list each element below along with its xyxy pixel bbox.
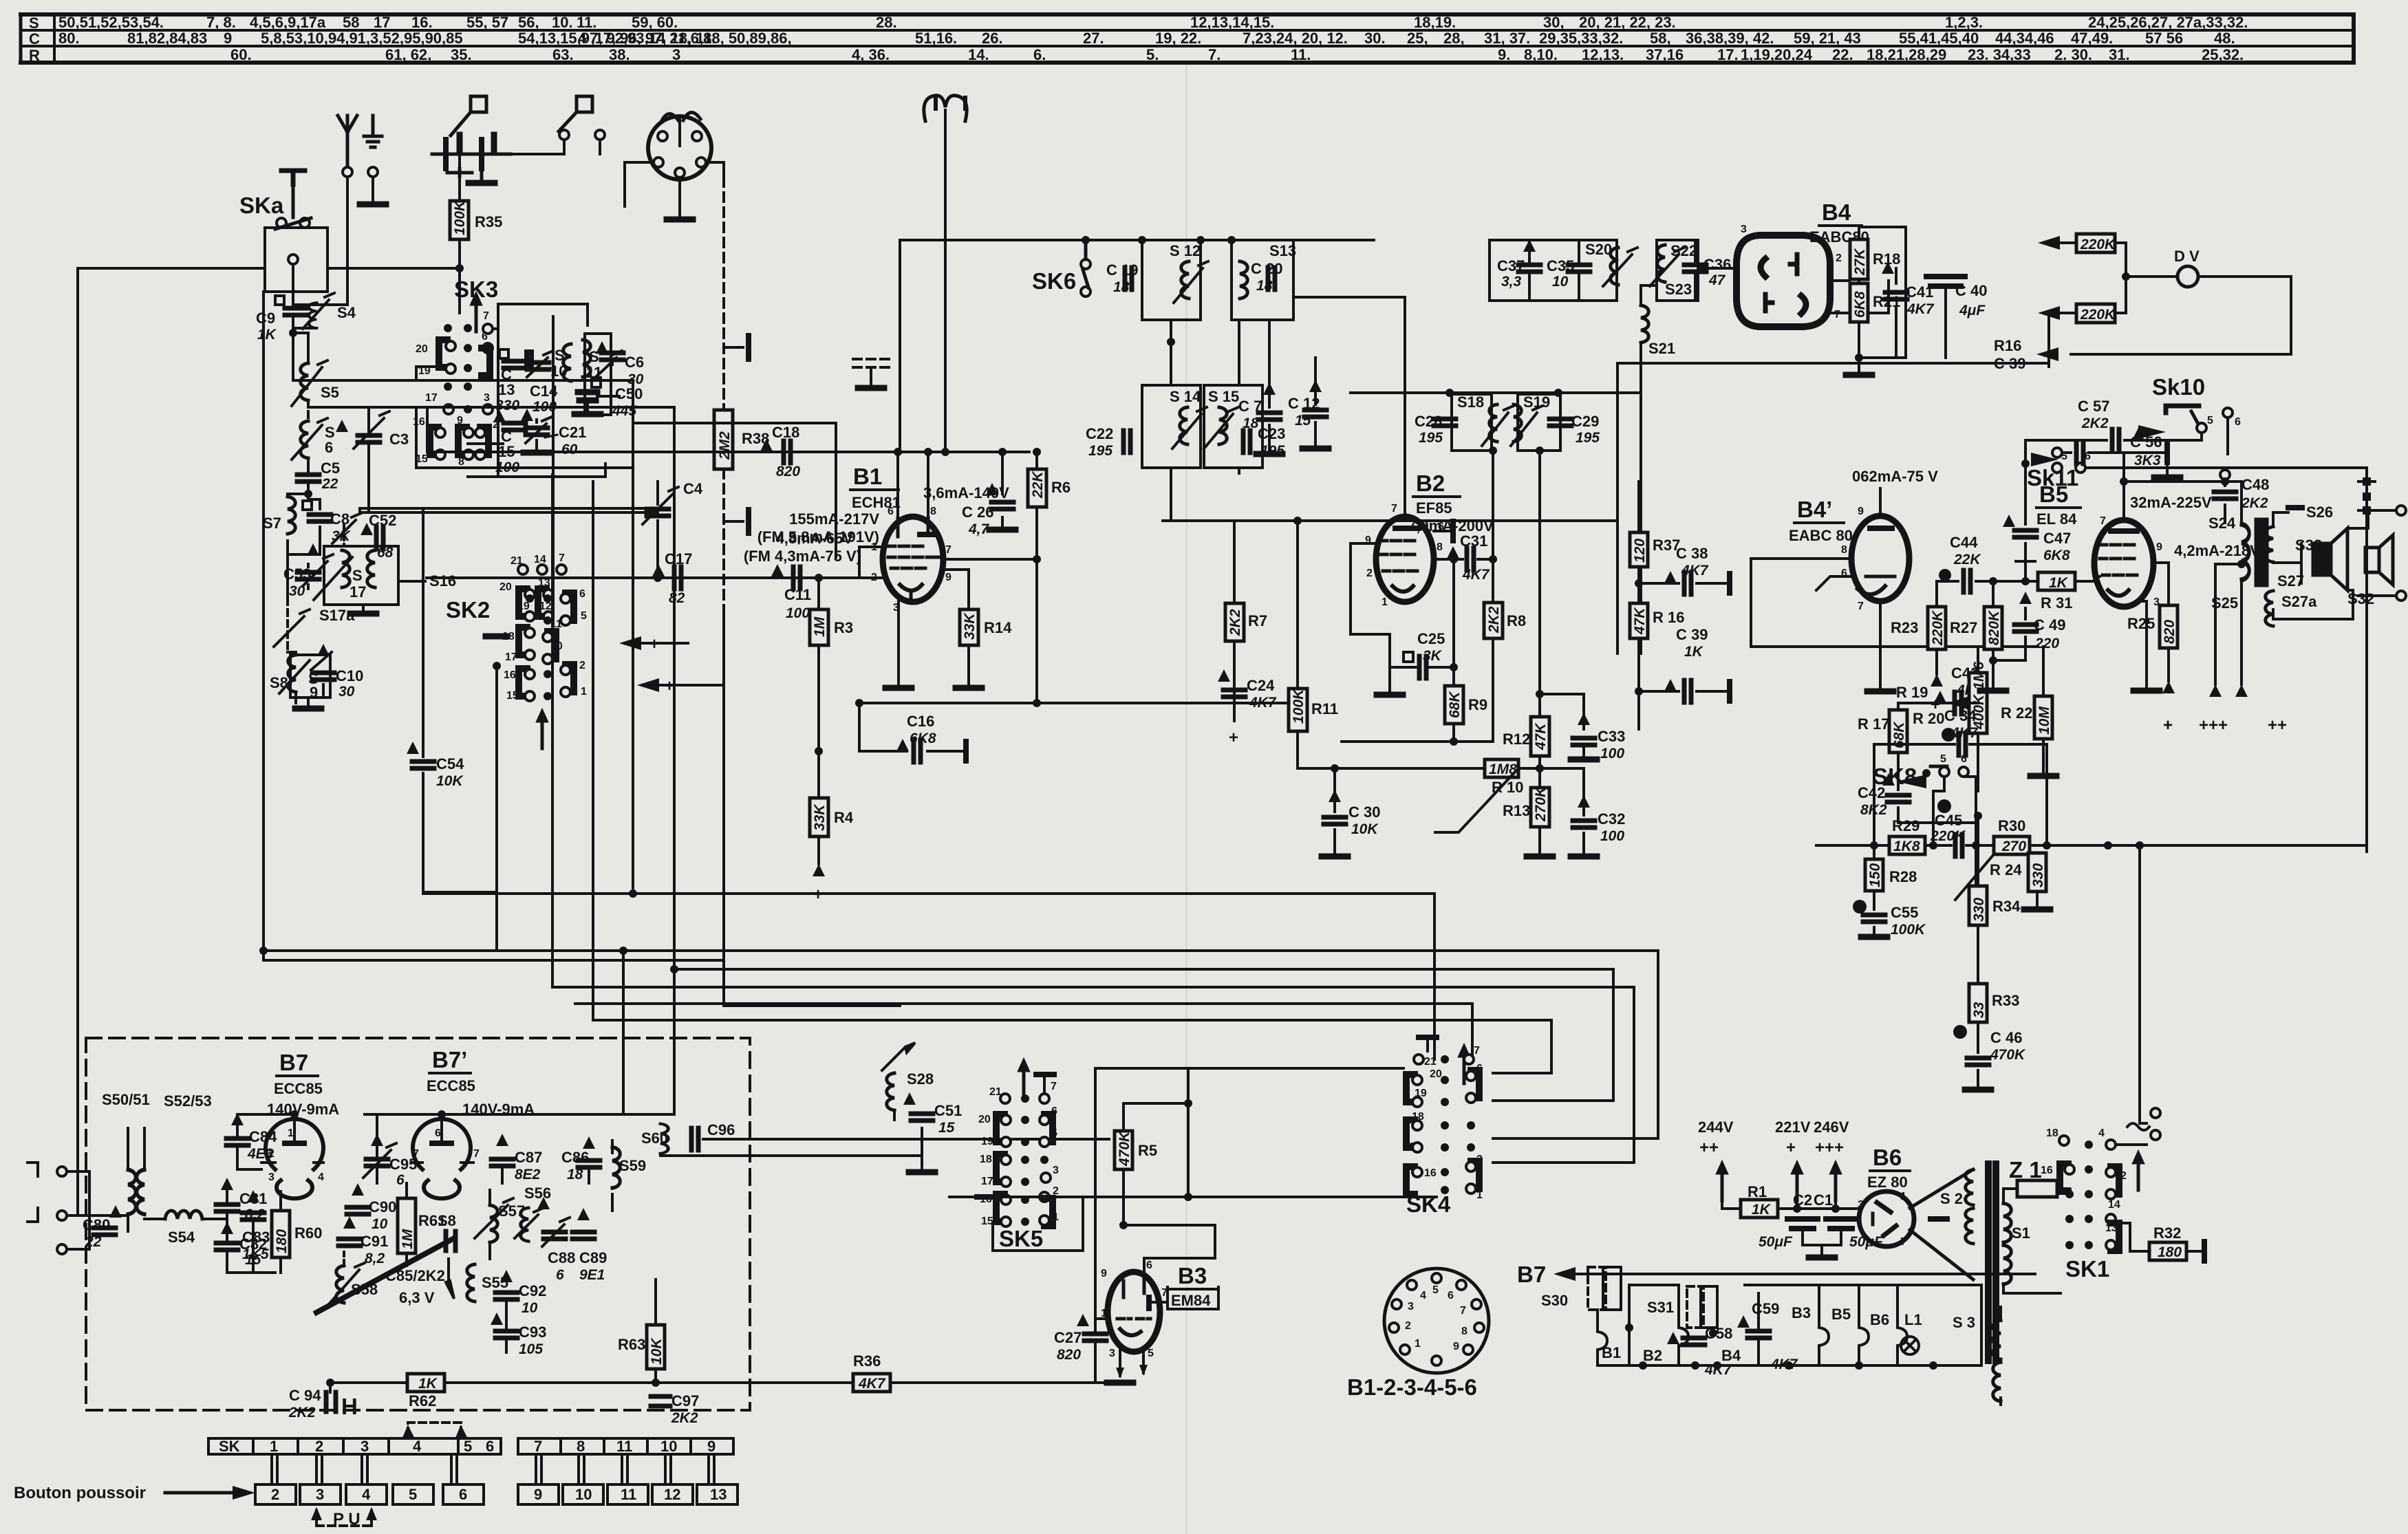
svg-text:3: 3 <box>672 46 680 63</box>
svg-text:19: 19 <box>981 1136 993 1147</box>
svg-text:15: 15 <box>938 1120 955 1136</box>
svg-text:155mA-217V: 155mA-217V <box>789 510 879 528</box>
svg-text:C24: C24 <box>1247 677 1275 694</box>
svg-text:2: 2 <box>2092 573 2098 585</box>
svg-text:4K7: 4K7 <box>1906 301 1935 317</box>
svg-text:S50/51: S50/51 <box>102 1091 150 1108</box>
svg-text:C28: C28 <box>1415 413 1442 430</box>
svg-text:57 56: 57 56 <box>2145 30 2183 47</box>
svg-text:180: 180 <box>274 1229 290 1253</box>
svg-text:C 39: C 39 <box>1676 626 1708 643</box>
svg-text:C87: C87 <box>515 1149 542 1166</box>
svg-text:1: 1 <box>1053 1211 1059 1223</box>
tube B7 ECC85 <box>266 1119 323 1199</box>
svg-text:S 3: S 3 <box>1953 1314 1975 1331</box>
svg-text:B6: B6 <box>1873 1145 1902 1170</box>
svg-text:5: 5 <box>409 1486 417 1503</box>
R10 1M8 bus <box>1298 731 1541 768</box>
svg-text:22: 22 <box>85 1234 102 1250</box>
svg-text:C: C <box>29 30 40 47</box>
svg-text:150: 150 <box>1867 863 1883 887</box>
svg-text:C35: C35 <box>1547 257 1574 274</box>
capacitor C27 <box>1084 1334 1106 1341</box>
svg-text:C 30: C 30 <box>1348 803 1380 821</box>
svg-text:9: 9 <box>707 1438 716 1455</box>
svg-text:1: 1 <box>581 686 587 698</box>
svg-text:C86: C86 <box>561 1149 589 1166</box>
S14 box <box>1142 385 1201 468</box>
svg-text:3K3: 3K3 <box>2134 453 2161 468</box>
svg-text:C29: C29 <box>1571 413 1599 430</box>
svg-text:7: 7 <box>1051 1081 1057 1092</box>
svg-text:9: 9 <box>457 415 463 426</box>
svg-text:C84: C84 <box>249 1128 277 1145</box>
svg-text:1K5: 1K5 <box>242 1246 269 1262</box>
S31 dashed <box>1687 1286 1717 1328</box>
svg-text:2M2: 2M2 <box>717 431 733 460</box>
svg-text:55,41,45,40: 55,41,45,40 <box>1899 30 1979 47</box>
svg-text:820K: 820K <box>1986 609 2002 645</box>
svg-text:S22: S22 <box>1670 242 1697 259</box>
svg-text:S 2: S 2 <box>1940 1190 1963 1207</box>
svg-text:B7: B7 <box>279 1050 308 1075</box>
svg-text:4: 4 <box>362 1486 371 1503</box>
svg-text:C17: C17 <box>665 550 692 568</box>
svg-text:30: 30 <box>289 583 305 599</box>
svg-text:8E2: 8E2 <box>515 1167 541 1182</box>
svg-text:++: ++ <box>1699 1138 1719 1157</box>
svg-text:100K: 100K <box>1891 922 1926 938</box>
svg-text:10: 10 <box>522 1300 538 1316</box>
svg-text:33: 33 <box>1971 1002 1987 1018</box>
svg-text:16.: 16. <box>411 14 433 31</box>
resistor R6 <box>1035 452 1038 703</box>
svg-text:55, 57: 55, 57 <box>466 14 508 31</box>
svg-text:17: 17 <box>425 392 438 404</box>
resistor R4 <box>817 751 820 798</box>
coil S54 <box>165 1211 202 1219</box>
svg-text:SK6: SK6 <box>1032 268 1076 294</box>
dashes above 4 <box>405 1423 465 1436</box>
antenna <box>338 116 357 167</box>
svg-text:59, 60.: 59, 60. <box>632 14 678 31</box>
svg-text:25,: 25, <box>1407 30 1428 47</box>
svg-text:33K: 33K <box>962 612 978 640</box>
svg-text:8,2: 8,2 <box>365 1251 385 1266</box>
svg-text:EL 84: EL 84 <box>2036 510 2077 528</box>
svg-text:17: 17 <box>374 14 390 31</box>
diagonal from 1M8 <box>1435 768 1518 832</box>
svg-text:1K: 1K <box>1752 1202 1772 1218</box>
svg-text:6: 6 <box>579 588 585 600</box>
svg-text:7: 7 <box>1900 1236 1906 1248</box>
svg-text:C80: C80 <box>83 1216 110 1233</box>
capacitor C45 <box>1937 799 1951 813</box>
svg-text:S1: S1 <box>2012 1224 2030 1242</box>
svg-text:16: 16 <box>504 669 516 681</box>
svg-text:18: 18 <box>2046 1127 2058 1139</box>
resistors R18 R21 <box>1850 239 1868 279</box>
svg-text:7: 7 <box>1474 1045 1480 1057</box>
svg-text:100: 100 <box>1600 828 1624 844</box>
svg-text:S24: S24 <box>2208 515 2236 532</box>
svg-text:18: 18 <box>502 631 515 642</box>
svg-text:6: 6 <box>1961 753 1967 765</box>
svg-text:C18: C18 <box>772 424 799 441</box>
svg-text:13: 13 <box>498 381 515 398</box>
svg-text:ECC85: ECC85 <box>427 1077 475 1094</box>
svg-text:EZ 80: EZ 80 <box>1867 1174 1908 1191</box>
svg-text:100K: 100K <box>452 199 468 235</box>
svg-text:P U: P U <box>333 1510 361 1528</box>
svg-text:105: 105 <box>519 1341 543 1357</box>
svg-text:SK1: SK1 <box>2065 1256 2109 1282</box>
resistor R36 <box>853 1374 890 1392</box>
R36 line continues to B3 <box>890 1343 1095 1383</box>
svg-text:S16: S16 <box>429 572 456 590</box>
svg-text:+++: +++ <box>2199 716 2228 735</box>
svg-text:10K: 10K <box>436 773 464 789</box>
svg-text:B2: B2 <box>1643 1347 1662 1364</box>
svg-text:D V: D V <box>2174 248 2200 265</box>
svg-text:S 15: S 15 <box>1208 388 1239 405</box>
resistor R11 <box>1289 689 1307 731</box>
svg-text:4E3: 4E3 <box>247 1146 274 1162</box>
svg-text:3: 3 <box>268 1171 275 1183</box>
coil S7 / capacitor C8 <box>288 494 320 554</box>
svg-text:27K: 27K <box>1852 248 1868 276</box>
svg-text:R13: R13 <box>1503 802 1530 819</box>
svg-text:2: 2 <box>315 1438 323 1455</box>
svg-text:++: ++ <box>2268 716 2287 735</box>
svg-text:16: 16 <box>1424 1167 1437 1179</box>
svg-text:7: 7 <box>1858 601 1864 612</box>
svg-text:1M: 1M <box>400 1229 416 1249</box>
svg-text:R34: R34 <box>1992 898 2021 915</box>
svg-text:10.: 10. <box>552 14 573 31</box>
svg-text:S20: S20 <box>1585 241 1612 258</box>
svg-text:22K: 22K <box>1030 471 1046 499</box>
svg-text:20: 20 <box>416 343 428 355</box>
left frame <box>78 268 460 1216</box>
svg-text:R16: R16 <box>1994 337 2021 354</box>
C44 + R31 line <box>1937 580 2094 583</box>
svg-text:C 39: C 39 <box>1994 355 2025 372</box>
svg-text:12,13,14,15.: 12,13,14,15. <box>1190 14 1274 31</box>
svg-text:6: 6 <box>459 1486 467 1503</box>
svg-text:ECC85: ECC85 <box>274 1080 323 1097</box>
svg-text:5: 5 <box>1476 1086 1483 1098</box>
svg-text:5.: 5. <box>1146 46 1159 63</box>
svg-text:9.: 9. <box>1498 46 1510 63</box>
caps right edge on x=3440 <box>2358 482 2375 510</box>
svg-text:C1: C1 <box>1814 1191 1833 1209</box>
svg-text:C96: C96 <box>707 1121 735 1138</box>
bus y=1229 with R29 C45 R30 <box>1816 844 2367 847</box>
svg-text:7, 8.: 7, 8. <box>206 14 236 31</box>
svg-text:17: 17 <box>1404 1141 1416 1153</box>
svg-text:11: 11 <box>621 1486 636 1503</box>
R19/R20/R17/R22/C42/C43/R24 cluster <box>1751 638 1969 647</box>
svg-text:S8: S8 <box>270 674 288 691</box>
svg-text:30: 30 <box>338 684 355 700</box>
svg-text:1: 1 <box>1415 1338 1421 1350</box>
svg-text:1: 1 <box>1476 1189 1483 1201</box>
svg-text:B2: B2 <box>1416 471 1445 496</box>
svg-text:C37: C37 <box>1497 257 1525 274</box>
svg-text:R 16: R 16 <box>1653 609 1684 626</box>
svg-text:4K7: 4K7 <box>1770 1357 1798 1372</box>
svg-text:31, 37.: 31, 37. <box>1484 30 1530 47</box>
mains terminals <box>2116 852 2151 1145</box>
svg-text:C54: C54 <box>436 755 464 773</box>
resistor R38 <box>724 177 749 614</box>
svg-text:47,49.: 47,49. <box>2071 30 2113 47</box>
capacitor C5 <box>307 458 310 494</box>
svg-text:2K2: 2K2 <box>288 1405 316 1420</box>
svg-text:B4’: B4’ <box>1797 497 1832 522</box>
svg-text:47K: 47K <box>1632 607 1648 635</box>
svg-text:C 56: C 56 <box>2130 433 2162 451</box>
svg-text:10: 10 <box>575 1486 592 1503</box>
B4 wires <box>1658 267 1889 313</box>
svg-text:R 22: R 22 <box>2001 704 2032 722</box>
svg-text:6K8: 6K8 <box>1852 291 1868 318</box>
svg-text:17: 17 <box>350 583 366 601</box>
svg-text:38.: 38. <box>609 46 630 63</box>
svg-text:51,16.: 51,16. <box>915 30 957 47</box>
svg-text:2K2: 2K2 <box>2081 415 2109 431</box>
svg-text:120: 120 <box>1632 539 1648 563</box>
svg-text:S32: S32 <box>2347 590 2374 607</box>
S30 dashed <box>1588 1267 1621 1310</box>
svg-text:1: 1 <box>1382 596 1388 608</box>
svg-text:C 38: C 38 <box>1676 545 1708 562</box>
svg-text:R5: R5 <box>1138 1142 1157 1159</box>
PU <box>313 1511 375 1526</box>
svg-text:100: 100 <box>1600 746 1624 761</box>
svg-text:C23: C23 <box>1258 425 1285 442</box>
svg-text:9: 9 <box>534 1486 542 1503</box>
svg-text:R27: R27 <box>1950 619 1977 636</box>
svg-text:18: 18 <box>980 1154 992 1165</box>
svg-text:C33: C33 <box>1598 728 1625 745</box>
svg-text:6.: 6. <box>1033 46 1046 63</box>
svg-text:47: 47 <box>1708 272 1726 288</box>
resistor R9 <box>1452 559 1455 742</box>
svg-text:20: 20 <box>978 1114 991 1125</box>
Sk11 <box>2031 453 2058 466</box>
R25 <box>2160 605 2178 648</box>
svg-text:8: 8 <box>1841 544 1847 556</box>
svg-text:EM84: EM84 <box>1171 1292 1211 1309</box>
svg-text:5,8,53,10,94,91,3,52,95,90,85: 5,8,53,10,94,91,3,52,95,90,85 <box>261 30 463 47</box>
capacitors C90 C91 <box>347 1207 369 1214</box>
secondary <box>2266 527 2273 562</box>
coil S55 <box>316 1238 454 1312</box>
svg-text:1: 1 <box>288 1127 294 1139</box>
tube B7' ECC85 <box>413 1119 471 1199</box>
svg-text:21: 21 <box>1424 1056 1437 1068</box>
capacitor C54 <box>423 510 497 951</box>
svg-text:R3: R3 <box>834 619 853 636</box>
capacitors C87 C86 / coil S59 <box>491 1159 513 1166</box>
svg-text:30.: 30. <box>1364 30 1386 47</box>
resistor R7 / capacitor C24 <box>1233 521 1236 715</box>
svg-text:R32: R32 <box>2153 1224 2181 1242</box>
svg-text:C59: C59 <box>1752 1300 1779 1317</box>
svg-text:C50: C50 <box>615 385 643 402</box>
svg-text:18,21,28,29: 18,21,28,29 <box>1867 46 1946 63</box>
svg-text:R35: R35 <box>475 213 502 230</box>
svg-text:220K: 220K <box>2080 307 2116 323</box>
plus arrow (C16 row) <box>637 678 659 692</box>
svg-text:SK5: SK5 <box>999 1226 1043 1251</box>
svg-text:16: 16 <box>413 416 425 428</box>
svg-text:R29: R29 <box>1892 817 1920 834</box>
svg-text:S 14: S 14 <box>1170 388 1201 405</box>
svg-text:35.: 35. <box>451 46 472 63</box>
svg-text:R14: R14 <box>984 619 1012 636</box>
svg-text:R 17: R 17 <box>1858 715 1889 733</box>
svg-text:17.: 17. <box>1717 46 1739 63</box>
svg-text:Bouton poussoir: Bouton poussoir <box>14 1484 146 1502</box>
svg-text:C36: C36 <box>1703 256 1731 273</box>
S11 box <box>585 334 611 415</box>
svg-text:9: 9 <box>224 30 232 47</box>
resistor R61 <box>398 1198 416 1253</box>
svg-text:56,: 56, <box>518 14 539 31</box>
svg-text:6,3 V: 6,3 V <box>399 1289 435 1306</box>
svg-text:10M: 10M <box>2036 706 2052 735</box>
svg-text:4: 4 <box>2098 1127 2105 1139</box>
svg-text:29,35,33,32.: 29,35,33,32. <box>1539 30 1623 47</box>
svg-text:18: 18 <box>1113 279 1130 295</box>
svg-text:7: 7 <box>1391 503 1397 515</box>
svg-text:C 19: C 19 <box>1106 261 1138 279</box>
svg-text:S27: S27 <box>2277 572 2304 590</box>
svg-text:13: 13 <box>710 1486 727 1503</box>
svg-text:22.: 22. <box>1832 46 1853 63</box>
svg-text:6: 6 <box>888 506 894 517</box>
svg-text:R25: R25 <box>2127 615 2155 632</box>
capacitor C25 <box>1404 652 1413 662</box>
tube B1 ECH81 <box>883 517 943 602</box>
svg-text:5: 5 <box>1432 1284 1439 1296</box>
svg-text:100K: 100K <box>1291 688 1307 724</box>
svg-text:C10: C10 <box>336 667 363 684</box>
push contact assembly <box>432 135 510 180</box>
svg-text:6K8: 6K8 <box>2043 548 2070 563</box>
svg-text:330: 330 <box>2030 863 2046 887</box>
svg-text:246V: 246V <box>1814 1119 1849 1136</box>
svg-text:59, 21, 43: 59, 21, 43 <box>1794 30 1861 47</box>
wires upper-left middle <box>293 268 836 1020</box>
svg-text:33K: 33K <box>812 803 828 831</box>
svg-text:50,51,52,53,54.: 50,51,52,53,54. <box>58 14 164 31</box>
svg-text:10: 10 <box>660 1438 677 1455</box>
svg-text:SK4: SK4 <box>1406 1191 1451 1217</box>
svg-text:4K7: 4K7 <box>1249 695 1277 711</box>
svg-text:2: 2 <box>1476 1154 1483 1165</box>
bus y=840 <box>427 576 883 579</box>
svg-text:17: 17 <box>981 1176 993 1187</box>
svg-text:7: 7 <box>559 552 565 564</box>
svg-text:+++: +++ <box>1815 1138 1844 1157</box>
svg-text:4,8mA-65V: 4,8mA-65V <box>775 530 853 547</box>
svg-text:50μF: 50μF <box>1759 1234 1793 1250</box>
wire antenna down to S4 <box>316 177 347 305</box>
svg-text:58,: 58, <box>1650 30 1671 47</box>
svg-text:S8: S8 <box>438 1212 456 1229</box>
svg-text:C44: C44 <box>1950 534 1978 551</box>
svg-text:C 26: C 26 <box>962 504 993 521</box>
svg-text:470K: 470K <box>1990 1047 2026 1063</box>
svg-text:5: 5 <box>1940 753 1946 765</box>
svg-text:C32: C32 <box>1598 810 1625 828</box>
svg-text:S30: S30 <box>1541 1292 1568 1309</box>
left bracket pins 9/2 <box>1351 543 1390 634</box>
capacitor C84 <box>226 1138 248 1145</box>
svg-text:C 94: C 94 <box>289 1387 321 1404</box>
svg-text:6: 6 <box>1448 1290 1454 1301</box>
coil S58 <box>336 1266 344 1303</box>
svg-text:R36: R36 <box>853 1352 881 1370</box>
resistors R34 R33 / capacitor C46 <box>1976 886 1978 1087</box>
svg-text:1K8: 1K8 <box>1893 839 1920 854</box>
svg-text:C 49: C 49 <box>2034 616 2065 634</box>
svg-text:8,10.: 8,10. <box>1524 46 1558 63</box>
svg-text:S60: S60 <box>641 1130 668 1147</box>
mains plug symbol <box>924 96 967 452</box>
svg-text:SKa: SKa <box>239 193 284 218</box>
svg-text:58: 58 <box>343 14 359 31</box>
capacitor C16 <box>859 703 1298 751</box>
svg-text:15: 15 <box>1295 413 1311 429</box>
svg-text:80.: 80. <box>58 30 80 47</box>
resistor R3 <box>817 578 820 751</box>
svg-text:22: 22 <box>321 476 338 492</box>
capacitor C95 <box>366 1159 388 1166</box>
svg-text:220K: 220K <box>2080 237 2116 252</box>
svg-text:C90: C90 <box>369 1198 396 1216</box>
svg-text:7: 7 <box>534 1438 542 1455</box>
svg-text:18,19.: 18,19. <box>1414 14 1456 31</box>
svg-text:2: 2 <box>271 1486 279 1503</box>
svg-text:2: 2 <box>1405 1320 1411 1332</box>
svg-text:6: 6 <box>1146 1260 1152 1271</box>
svg-text:16: 16 <box>980 1193 992 1205</box>
svg-text:C 40: C 40 <box>1955 282 1987 299</box>
svg-text:S54: S54 <box>168 1229 195 1246</box>
svg-text:S5: S5 <box>321 384 339 401</box>
svg-text:10: 10 <box>550 363 567 380</box>
svg-text:6: 6 <box>486 1438 494 1455</box>
svg-text:11.: 11. <box>1291 46 1311 63</box>
svg-text:7: 7 <box>2100 515 2106 527</box>
svg-text:9: 9 <box>1453 1341 1459 1352</box>
SK1 <box>2059 1136 2069 1145</box>
svg-text:C 20: C 20 <box>1251 260 1282 277</box>
capacitors C13 C14 <box>499 349 508 358</box>
svg-text:C55: C55 <box>1891 904 1918 921</box>
svg-text:B5: B5 <box>1831 1306 1851 1323</box>
svg-text:B4: B4 <box>1721 1347 1741 1364</box>
svg-text:+: + <box>1229 728 1238 747</box>
coil S21 <box>1641 305 1648 343</box>
verticals below <box>1171 468 1617 768</box>
svg-text:Z 1: Z 1 <box>2009 1157 2042 1182</box>
